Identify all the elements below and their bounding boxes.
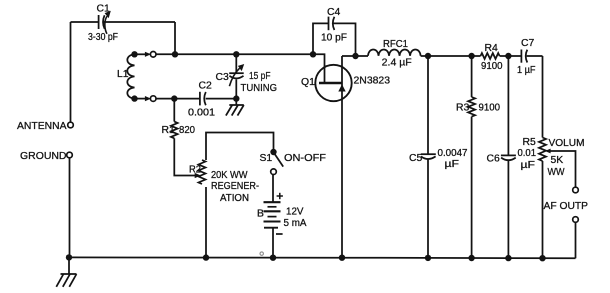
svg-text:Q1: Q1 [301,77,315,88]
svg-text:2N3823: 2N3823 [354,76,391,87]
svg-text:C6: C6 [487,154,501,165]
svg-text:R2: R2 [189,165,201,176]
svg-text:15 pF: 15 pF [249,71,271,82]
svg-text:µF: µF [445,159,460,170]
svg-text:GROUND: GROUND [20,151,67,162]
svg-text:TUNING: TUNING [241,83,278,94]
svg-text:L1: L1 [117,69,129,80]
svg-text:820: 820 [179,125,195,136]
svg-text:ANTENNA: ANTENNA [17,121,67,132]
svg-text:3-30 pF: 3-30 pF [88,32,118,43]
svg-text:5K: 5K [551,155,564,166]
svg-text:R1: R1 [162,125,176,136]
svg-text:C7: C7 [521,38,535,49]
svg-text:0.001: 0.001 [188,108,215,119]
svg-text:µF: µF [521,160,536,171]
svg-text:B: B [257,209,264,220]
svg-text:0.0047: 0.0047 [438,148,468,159]
svg-text:12V: 12V [286,207,304,218]
svg-text:C5: C5 [409,153,423,164]
svg-text:9100: 9100 [479,103,501,114]
svg-text:2.4 µF: 2.4 µF [382,58,412,69]
svg-text:5 mA: 5 mA [284,218,307,229]
svg-text:C4: C4 [327,7,341,18]
svg-text:RFC1: RFC1 [383,39,408,50]
svg-text:VOLUM: VOLUM [549,138,585,149]
svg-text:REGENER-: REGENER- [211,181,259,192]
svg-text:R3: R3 [456,103,470,114]
svg-text:10 pF: 10 pF [321,33,347,44]
svg-text:ATION: ATION [220,193,249,204]
svg-text:WW: WW [548,167,565,178]
svg-text:R4: R4 [485,43,499,54]
svg-text:AF OUTP: AF OUTP [544,201,589,212]
svg-text:R5: R5 [523,137,537,148]
svg-text:1 µF: 1 µF [517,65,536,76]
svg-text:C1: C1 [97,4,111,15]
svg-text:0.01: 0.01 [518,148,537,159]
svg-text:20K WW: 20K WW [211,170,248,181]
svg-text:C3: C3 [216,72,230,83]
svg-text:S1: S1 [260,153,273,164]
svg-text:9100: 9100 [481,61,503,72]
svg-text:C2: C2 [199,81,213,92]
svg-text:ON-OFF: ON-OFF [284,153,326,164]
